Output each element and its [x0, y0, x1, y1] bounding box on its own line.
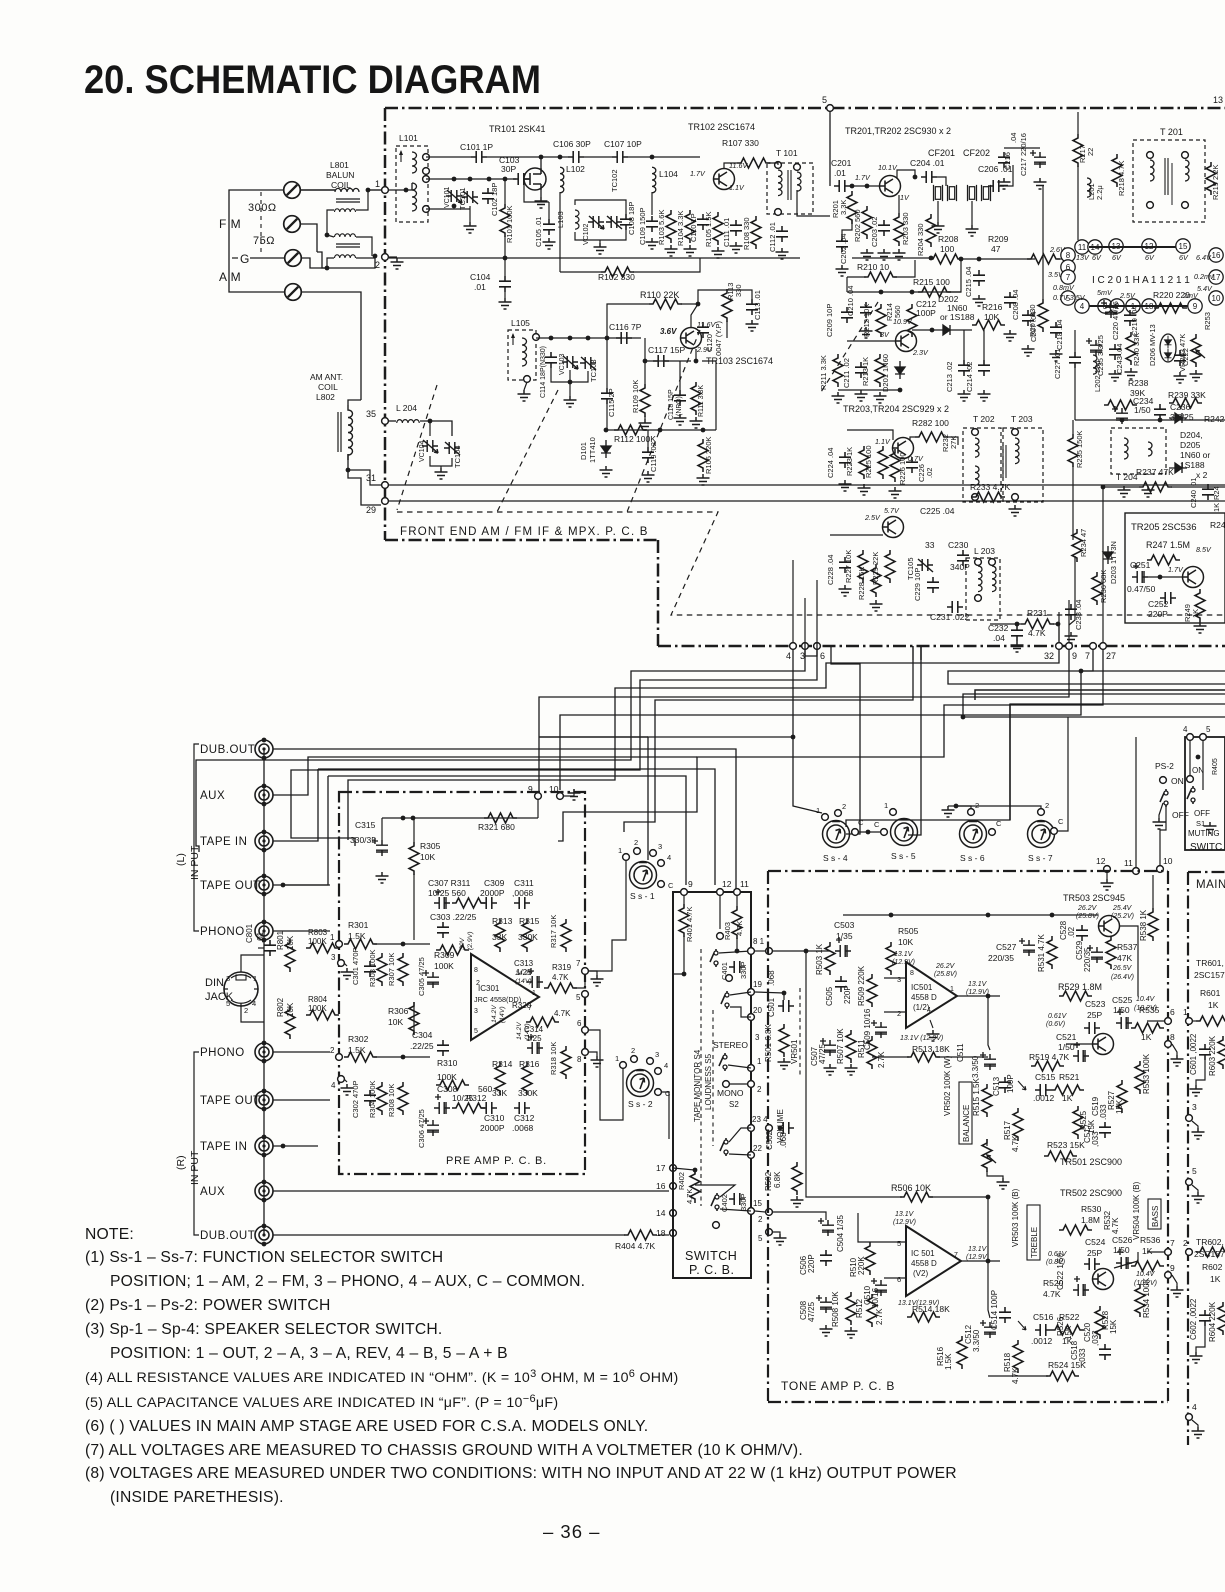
svg-text:27: 27 [1106, 651, 1116, 661]
harness wire a [648, 650, 793, 860]
capacitor C219 [1124, 310, 1136, 326]
svg-text:3: 3 [226, 974, 230, 983]
svg-text:OFF: OFF [1172, 810, 1189, 820]
wire G right [301, 258, 327, 268]
transistor TR103 [681, 328, 702, 349]
electrolytic C307 [434, 889, 450, 909]
T204 coil a [1124, 438, 1128, 459]
svg-text:3: 3 [658, 842, 662, 851]
junction s4a [735, 949, 740, 954]
ground C214 [978, 390, 991, 401]
capacitor C309 [481, 897, 497, 909]
svg-text:C514 100P: C514 100P [990, 1290, 999, 1330]
balun bottom left [327, 258, 334, 268]
stereo wire [728, 1065, 751, 1068]
capacitor C111 [730, 220, 742, 236]
electrolytic C235 [1086, 338, 1102, 356]
svg-text:NOTE:: NOTE: [85, 1226, 134, 1243]
svg-text:PS-2: PS-2 [1155, 761, 1174, 771]
electrolytic C510 [871, 1278, 887, 1296]
wire R107 to T101 [769, 163, 778, 165]
svg-text:5: 5 [897, 1239, 901, 1248]
wire w1d [628, 156, 700, 158]
svg-text:3: 3 [474, 1008, 478, 1015]
svg-text:C210 .04: C210 .04 [846, 286, 855, 316]
svg-text:R101 100K: R101 100K [505, 205, 514, 243]
IC201 pin 6 [1061, 260, 1075, 274]
electrolytic C314 [527, 1034, 543, 1054]
ground preamp t7 [591, 975, 604, 986]
antenna terminal 300ohm [284, 182, 301, 199]
svg-text:6: 6 [897, 1275, 901, 1284]
resistor R305 [409, 842, 419, 875]
BASS boxed label [1148, 1199, 1161, 1229]
svg-text:R315: R315 [519, 916, 540, 926]
mono stub [723, 1081, 730, 1088]
IC501a in2 wire [884, 1011, 906, 1013]
tone terminal 10 [1157, 866, 1164, 873]
svg-text:13: 13 [1213, 95, 1223, 105]
D202 wire2 [955, 329, 972, 331]
Ss-2 contact 2 [631, 1056, 638, 1063]
svg-text:2000P: 2000P [480, 888, 505, 898]
svg-text:R537: R537 [1117, 942, 1138, 952]
svg-text:P. C. B.: P. C. B. [689, 1263, 734, 1277]
svg-text:R402: R402 [677, 1172, 686, 1190]
transistor TR205 [1183, 567, 1204, 588]
svg-text:D203 1TT3N: D203 1TT3N [1109, 541, 1118, 584]
balun coil top [335, 188, 359, 192]
svg-text:1.1V: 1.1V [729, 183, 745, 192]
svg-text:R203 330: R203 330 [901, 212, 910, 245]
Ss-1 contact 2 [634, 848, 641, 855]
C118 wire [679, 361, 681, 390]
resistor R403 [732, 906, 742, 939]
resistor R321 [484, 813, 517, 823]
ground T203 [1009, 505, 1022, 516]
tone terminal 9b [1165, 1272, 1172, 1279]
svg-text:R204 330: R204 330 [916, 223, 925, 256]
T202 term2 [972, 494, 979, 501]
svg-text:POSITION: 1 – OUT, 2 – A, 3 –: POSITION: 1 – OUT, 2 – A, 3 – A, REV, 4 … [110, 1345, 508, 1362]
svg-text:,0068: ,0068 [512, 888, 534, 898]
ground tone 12 [1101, 879, 1114, 890]
svg-text:TR501 2SC900: TR501 2SC900 [1060, 1157, 1122, 1167]
L101 term d [423, 206, 430, 213]
preamp terminal 3 [338, 960, 345, 967]
svg-text:2.5V: 2.5V [864, 513, 881, 522]
CF202 to C216 [1004, 165, 1013, 186]
ground preamp t8 [591, 1056, 604, 1067]
resistor R106 [698, 439, 708, 472]
ground R106 [697, 474, 710, 485]
wire w2 bottom [426, 208, 470, 210]
L102 down [559, 192, 561, 272]
capacitor C505 [835, 976, 847, 992]
terminal 4 [790, 643, 797, 650]
resistor R312 [452, 1103, 485, 1113]
TR103 emitter drop [695, 349, 697, 361]
svg-text:330: 330 [734, 284, 743, 297]
capacitor C516 [1035, 1324, 1051, 1336]
tone terminal 2in [766, 1209, 773, 1216]
capacitor C211 [855, 362, 867, 378]
rotary switch Ss-2 [627, 1070, 654, 1097]
rotary switch Ss-1 [630, 862, 657, 889]
ground S1 [1204, 822, 1217, 833]
ground tank2 [594, 243, 607, 254]
ground main 4 [1192, 1427, 1205, 1438]
resistor R236 [1092, 572, 1102, 605]
svg-text:35: 35 [366, 409, 376, 419]
preamp terminal 8 [582, 1049, 589, 1056]
svg-text:2.3V: 2.3V [912, 348, 929, 357]
svg-text:(NPO): (NPO) [676, 396, 683, 416]
capacitor C104 [499, 276, 511, 292]
svg-text:6V: 6V [1179, 253, 1189, 262]
ground C203 [878, 249, 891, 260]
capacitor C218 [1050, 322, 1062, 338]
resistor R225 [878, 446, 888, 479]
R101 leads [504, 179, 506, 204]
svg-text:2000P: 2000P [480, 1123, 505, 1133]
resistor R514 [907, 1312, 940, 1322]
junction w5 x551 [549, 336, 554, 341]
resistor R301 [344, 939, 377, 949]
svg-text:13.1V: 13.1V [968, 981, 988, 988]
svg-text:C112 .01: C112 .01 [768, 222, 777, 252]
op-amp IC501 b [906, 1226, 961, 1296]
svg-text:R227 10K: R227 10K [844, 550, 853, 583]
ground R240 [1125, 368, 1138, 379]
ground T204a [1118, 486, 1131, 497]
svg-text:C107 10P: C107 10P [604, 139, 642, 149]
resistor R517 [1013, 1108, 1023, 1141]
svg-text:(12.9V): (12.9V) [966, 989, 989, 996]
Ss-7 common [1051, 828, 1058, 835]
svg-text:PHONO: PHONO [200, 1047, 245, 1059]
if1 rail [852, 257, 931, 259]
svg-text:220/35: 220/35 [1083, 947, 1092, 972]
RCA jack PHONO (R) [255, 1043, 273, 1061]
svg-text:32: 32 [1044, 651, 1054, 661]
svg-text:4: 4 [331, 1081, 336, 1090]
TC101 gnd drop [469, 206, 471, 222]
mono wire [730, 1083, 751, 1085]
svg-text:A M: A M [219, 270, 241, 284]
transistor TR202 [896, 331, 917, 352]
preamp terminal 4 [338, 1076, 345, 1083]
term27 rise [1102, 487, 1104, 642]
svg-text:33K: 33K [492, 932, 507, 942]
resistor R227 [858, 550, 868, 583]
svg-text:R307 10K: R307 10K [387, 953, 396, 986]
resistor R518 [1013, 1340, 1023, 1373]
svg-text:2.2μ: 2.2μ [1095, 185, 1104, 200]
resistor R228 [871, 564, 881, 597]
preamp terminal 7 [582, 968, 589, 975]
svg-text:R401 4.7K: R401 4.7K [685, 907, 694, 942]
svg-text:.04: .04 [1009, 133, 1018, 143]
junction if1b [865, 184, 870, 189]
svg-text:20. SCHEMATIC DIAGRAM: 20. SCHEMATIC DIAGRAM [84, 58, 541, 102]
svg-text:TR601,: TR601, [1196, 958, 1224, 968]
ground R228 [870, 600, 883, 611]
tone 11 wire up [1135, 737, 1137, 867]
svg-text:(5) ALL CAPACITANCE VALUES ARE: (5) ALL CAPACITANCE VALUES ARE INDICATED… [85, 1393, 558, 1411]
svg-text:R211 3.3K: R211 3.3K [819, 355, 828, 390]
svg-text:4.7K: 4.7K [735, 921, 744, 936]
PS-2 on circle [1160, 777, 1167, 784]
svg-text:C118 15P: C118 15P [668, 389, 675, 420]
svg-text:10K: 10K [286, 935, 295, 950]
svg-text:L802: L802 [316, 392, 335, 402]
svg-text:9: 9 [1072, 651, 1077, 661]
resistor R213 [875, 354, 885, 387]
junction R401 [682, 972, 687, 977]
svg-text:1/50: 1/50 [1134, 405, 1151, 415]
ground R211 [832, 392, 845, 403]
R301 wire [374, 943, 430, 945]
tone amp box right [1167, 871, 1169, 1402]
diode D101 [601, 440, 611, 458]
resistor R529h [1059, 991, 1092, 1001]
capacitor C214 [978, 360, 990, 376]
svg-text:1: 1 [816, 806, 820, 815]
preamp terminal 9 [535, 793, 542, 800]
svg-text:R519 4.7K: R519 4.7K [1029, 1052, 1069, 1062]
capacitor C208 [1004, 292, 1016, 308]
capacitor C213 [958, 360, 970, 376]
C115 wire [606, 338, 608, 388]
ground R109 [639, 419, 652, 430]
C115 wire2 [606, 404, 608, 430]
svg-text:47/25: 47/25 [807, 1301, 816, 1322]
Ss-6 common [989, 829, 996, 836]
resistor R108 [751, 216, 761, 249]
svg-text:5: 5 [576, 993, 581, 1002]
terminal 3 [802, 643, 809, 650]
resistor R535h [1131, 1023, 1164, 1033]
svg-text:13V: 13V [1076, 253, 1090, 262]
L105 gnd wire [524, 382, 527, 390]
R102 wire [560, 271, 601, 273]
svg-text:R512: R512 [855, 1298, 864, 1318]
tank3 gnd wire [569, 382, 571, 396]
svg-text:L103: L103 [556, 211, 565, 228]
muting terminal 4 [1187, 734, 1194, 741]
svg-text:26.2V: 26.2V [935, 963, 956, 970]
tone out wire [1147, 1020, 1164, 1022]
wire TAPE IN L routing [273, 769, 318, 841]
tank2 bottom [575, 230, 626, 240]
resistor R602h [1196, 1247, 1225, 1257]
capacitor C202 [836, 236, 848, 252]
VR501 dashes [799, 988, 801, 1075]
capacitor C243 [1109, 344, 1121, 360]
svg-text:(14V): (14V) [499, 1006, 506, 1023]
capacitor C602 [1199, 1310, 1211, 1326]
resistor R237h [1139, 482, 1172, 492]
ground C105 [543, 238, 556, 249]
svg-text:C113 .01: C113 .01 [753, 290, 762, 320]
capacitor C112 [776, 226, 788, 242]
L101 dashed box [396, 146, 428, 222]
wire routing down 1 [318, 769, 715, 885]
trimmer TC103 [580, 357, 596, 370]
preamp terminal 5 [582, 991, 589, 998]
collector node up [698, 290, 727, 304]
svg-text:4.7K: 4.7K [1111, 1217, 1120, 1234]
T201 arrow [1171, 163, 1173, 205]
svg-text:VR502 100K (W): VR502 100K (W) [943, 1055, 952, 1116]
balun sec1 frame2 [356, 190, 368, 210]
L203 coil [978, 566, 982, 592]
D202 wire [912, 329, 937, 331]
svg-text:13.1V (12.9V): 13.1V (12.9V) [900, 1035, 943, 1042]
T203 core2 [1005, 445, 1007, 478]
svg-text:4: 4 [667, 853, 671, 862]
svg-text:DUB.OUT: DUB.OUT [200, 1230, 255, 1242]
tone 10 wire up [1160, 806, 1166, 865]
Ss-2 contact 3 [647, 1058, 654, 1065]
resistor R513 [907, 1052, 940, 1062]
svg-text:R104 3.3K: R104 3.3K [676, 211, 685, 246]
harness wire n [975, 690, 1225, 700]
svg-text:C525: C525 [1112, 995, 1133, 1005]
capacitor C513 [999, 1077, 1011, 1093]
Ss-7 2 wire [956, 806, 1041, 808]
tank3 gnd drop [569, 370, 571, 382]
C501 drop [783, 993, 785, 1000]
svg-text:or 1S188: or 1S188 [940, 312, 975, 322]
tone terminal 6 [1165, 1018, 1172, 1025]
resistor R519 [1031, 1061, 1064, 1071]
antenna dashed 300 [260, 192, 262, 256]
svg-text:3.3/50: 3.3/50 [971, 1055, 980, 1078]
svg-text:10K: 10K [898, 937, 913, 947]
wire L802 top [348, 400, 361, 405]
svg-text:R508 10K: R508 10K [831, 1291, 840, 1327]
svg-text:C108 18P: C108 18P [627, 202, 636, 235]
svg-text:C217 220/16: C217 220/16 [1019, 133, 1028, 176]
svg-text:R603 220K: R603 220K [1208, 1035, 1217, 1076]
svg-text:1K: 1K [1212, 503, 1221, 512]
svg-text:TAPE IN: TAPE IN [200, 836, 247, 848]
capacitor C102 [482, 188, 494, 204]
svg-text:.04: .04 [993, 633, 1005, 643]
harness wire b [196, 642, 805, 852]
resistor R538 [1148, 908, 1158, 941]
rotary switch Ss-4 [823, 821, 850, 848]
svg-text:R530: R530 [1081, 1204, 1102, 1214]
svg-text:C302 470P: C302 470P [351, 1080, 360, 1118]
switch terminal 8 [748, 948, 755, 955]
R217 wire [1077, 112, 1079, 134]
capacitor C222 [1174, 350, 1186, 366]
svg-text:C511: C511 [956, 1043, 965, 1062]
svg-text:DUB.OUT: DUB.OUT [200, 744, 255, 756]
ground C112 [776, 248, 789, 259]
s5b wire [695, 1185, 735, 1197]
trimmer TC105 [917, 559, 933, 572]
svg-text:C227 .01: C227 .01 [1053, 349, 1062, 379]
capacitor C401 [729, 961, 745, 973]
resistor R527 [1117, 1080, 1127, 1113]
TR203 collector [910, 437, 915, 440]
svg-text:.02: .02 [925, 468, 934, 478]
svg-text:R802: R802 [276, 997, 285, 1017]
ground C224 [839, 480, 852, 491]
filter CF202b [982, 185, 991, 201]
tone input rail [773, 950, 830, 952]
resistor R112 [614, 425, 647, 435]
R305 wire2 [413, 874, 415, 940]
svg-text:C110 1P: C110 1P [689, 213, 698, 242]
filter CF201a [934, 185, 943, 201]
T101 core2 [790, 170, 792, 200]
svg-text:10K: 10K [984, 312, 999, 322]
svg-text:6: 6 [577, 1019, 582, 1028]
preamp gnd link [563, 789, 574, 796]
svg-text:8: 8 [910, 970, 914, 977]
svg-text:C116 7P: C116 7P [609, 322, 642, 332]
link terminal 3-6 [805, 650, 817, 656]
junction if2 b [910, 290, 915, 295]
svg-text:R242: R242 [1204, 414, 1225, 424]
tank2 gnd drop [599, 240, 601, 243]
svg-text:.01: .01 [256, 931, 265, 943]
svg-text:2: 2 [842, 802, 846, 811]
wire to CF [937, 177, 946, 186]
junction tr503 a [889, 913, 894, 918]
resistor R282h [915, 432, 948, 442]
svg-text:(25.2V): (25.2V) [1111, 913, 1134, 920]
svg-text:R509 220K: R509 220K [857, 965, 866, 1006]
S5 gang dashed [712, 1010, 714, 1146]
svg-text:C240 .01: C240 .01 [1189, 478, 1198, 508]
tone out wire lower [1147, 1251, 1164, 1253]
resistor R516 [957, 1336, 967, 1369]
C213 wire [963, 330, 965, 360]
wire if2 [847, 340, 895, 342]
wire DIN right upper [258, 947, 264, 949]
C512 wire [988, 1261, 990, 1318]
svg-text:VR501: VR501 [790, 1039, 799, 1064]
w2 tap for C105 [524, 179, 549, 202]
svg-text:IC 501: IC 501 [911, 1249, 935, 1258]
L101 coil top [412, 152, 417, 173]
svg-text:R111 3.3K: R111 3.3K [698, 385, 705, 417]
junction rail9 a [401, 816, 406, 821]
transistor TR201 [880, 176, 901, 197]
junction tr503 c [1050, 913, 1055, 918]
svg-text:VC101: VC101 [444, 186, 451, 208]
svg-text:.0012: .0012 [1033, 1093, 1055, 1103]
svg-text:MONO: MONO [717, 1088, 744, 1098]
C214 wire [983, 330, 985, 360]
R215 right [948, 260, 961, 292]
ground C207 [1022, 345, 1035, 356]
svg-text:TR102 2SC1674: TR102 2SC1674 [688, 122, 755, 132]
T203 dashed box [1003, 428, 1043, 502]
capacitor C210 [860, 302, 872, 318]
capacitor C515 [1035, 1084, 1051, 1096]
ground R226 [889, 487, 902, 498]
front end PCB top border [385, 107, 1225, 110]
s4b wire2 [730, 1007, 751, 1017]
svg-text:VR203 47K: VR203 47K [1178, 334, 1187, 372]
